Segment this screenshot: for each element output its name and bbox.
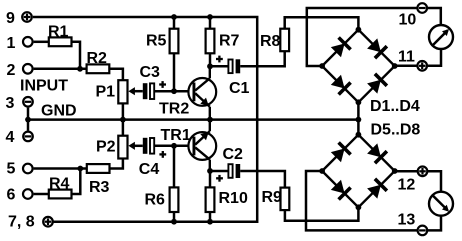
svg-text:R7: R7 [219, 33, 240, 50]
svg-text:R2: R2 [87, 50, 108, 67]
svg-text:11: 11 [398, 49, 415, 66]
svg-text:C4: C4 [139, 161, 160, 178]
svg-text:3: 3 [6, 95, 15, 112]
svg-text:R4: R4 [49, 176, 70, 193]
svg-text:4: 4 [6, 129, 15, 146]
svg-text:6: 6 [7, 187, 16, 204]
svg-text:D5..D8: D5..D8 [371, 122, 421, 139]
svg-text:13: 13 [398, 212, 416, 229]
svg-text:INPUT: INPUT [20, 78, 68, 95]
svg-text:TR2: TR2 [159, 101, 189, 118]
svg-text:C1: C1 [229, 80, 250, 97]
svg-text:R3: R3 [89, 179, 110, 196]
svg-text:R1: R1 [48, 23, 69, 40]
svg-text:P1: P1 [96, 84, 116, 101]
svg-text:5: 5 [7, 161, 16, 178]
svg-text:P2: P2 [96, 139, 116, 156]
svg-text:2: 2 [7, 62, 16, 79]
svg-text:1: 1 [7, 35, 16, 52]
svg-text:R10: R10 [219, 190, 248, 207]
svg-text:D1..D4: D1..D4 [370, 98, 420, 115]
svg-text:GND: GND [41, 103, 77, 120]
svg-text:12: 12 [398, 176, 416, 193]
svg-text:9: 9 [6, 10, 15, 27]
svg-text:C2: C2 [223, 146, 244, 163]
svg-text:R8: R8 [260, 33, 281, 50]
svg-text:R5: R5 [146, 32, 167, 49]
svg-text:R9: R9 [262, 189, 283, 206]
svg-text:TR1: TR1 [161, 127, 191, 144]
svg-text:7, 8: 7, 8 [8, 213, 35, 230]
svg-text:10: 10 [399, 12, 417, 29]
svg-text:R6: R6 [145, 192, 166, 209]
svg-text:C3: C3 [140, 64, 161, 81]
